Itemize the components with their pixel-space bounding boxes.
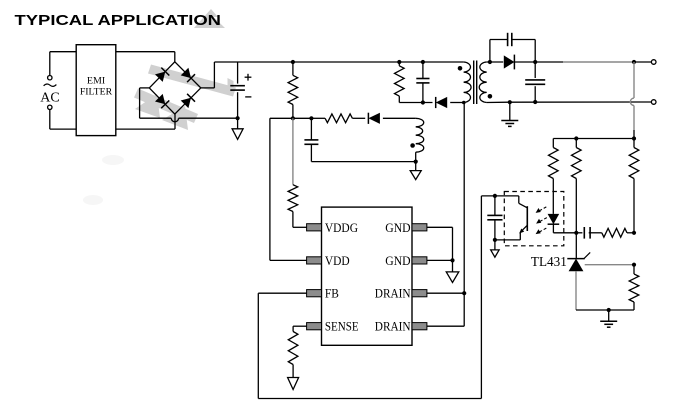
resistor R bias (mid) — [572, 139, 582, 233]
wire positive rail — [214, 61, 463, 63]
wire output top gray — [563, 61, 634, 63]
wire vddg feed (gray) — [292, 118, 294, 184]
resistor R fb upper — [629, 139, 639, 233]
output terminal + — [651, 60, 656, 65]
wire tl431 ref (gray) — [585, 264, 634, 266]
bridge diode D2 (top-right) — [181, 68, 195, 82]
wire emi to bridge top — [116, 52, 175, 63]
pin FB — [307, 290, 322, 297]
capacitor C fb — [487, 196, 502, 240]
output terminal - — [651, 100, 656, 105]
svg-text:GND: GND — [385, 253, 410, 268]
node secondary diode anode — [488, 60, 492, 64]
wire after diode — [514, 61, 535, 63]
wire vddg to pin — [293, 212, 307, 228]
wire aux to diode — [352, 117, 365, 119]
pin VDDG — [307, 224, 322, 231]
pin label GND 1 — [385, 220, 410, 235]
node snubber R top — [397, 60, 401, 64]
ground ic — [446, 260, 459, 282]
capacitor C vdd — [304, 118, 318, 161]
resistor R vddg — [288, 185, 298, 212]
bridge diode D3 (left-bottom) — [155, 94, 169, 108]
resistor R aux — [325, 114, 352, 123]
pin SENSE — [307, 323, 322, 330]
wire emi to bridge bottom — [116, 114, 175, 129]
ground fb — [491, 240, 499, 257]
resistor R led (left) — [549, 139, 559, 214]
wire feedback rail — [553, 138, 634, 140]
wire negative rail — [140, 118, 238, 122]
wire gnd2 — [427, 259, 453, 261]
node comp right — [632, 231, 636, 235]
ground bulk — [232, 118, 243, 139]
diode D clamp — [436, 97, 448, 108]
wire sense pin — [293, 326, 307, 331]
wire output top black — [535, 61, 563, 63]
optocoupler U2 box — [504, 192, 564, 246]
node feedback rail right — [632, 136, 636, 140]
node bulk cap negative — [236, 116, 240, 120]
transformer core — [474, 61, 477, 105]
node primary bottom — [462, 101, 466, 105]
pin VDD — [307, 257, 322, 264]
pin GND1 — [412, 224, 427, 231]
optocoupler LED — [548, 214, 577, 233]
node feedback rail mid — [574, 136, 578, 140]
ground sense — [288, 378, 299, 390]
TL431 U3 — [531, 252, 590, 271]
svg-text:TYPICAL APPLICATION: TYPICAL APPLICATION — [15, 13, 222, 29]
svg-text:FB: FB — [325, 286, 339, 301]
node comp left — [574, 231, 578, 235]
pin label GND 2 — [385, 253, 410, 268]
aux winding phase dot — [410, 143, 415, 148]
wire comp to divider — [627, 232, 634, 234]
wire snubber bottom — [399, 102, 432, 104]
pin label VDD — [325, 253, 350, 268]
wire bridge right corner to positive rail — [201, 62, 215, 88]
resistor R startup — [288, 62, 298, 118]
wire to output terminal + — [634, 61, 651, 63]
node vdd right — [309, 116, 313, 120]
diode D out — [504, 55, 515, 70]
node output cap top — [533, 60, 537, 64]
IC U1 body — [322, 207, 413, 345]
pin label SENSE — [325, 319, 359, 334]
node snubber C bottom — [421, 100, 425, 104]
pin label VDDG — [325, 220, 358, 235]
aux winding L aux — [416, 118, 424, 161]
node aux return — [414, 160, 418, 164]
title text — [15, 13, 222, 29]
optocoupler phototransistor — [495, 196, 527, 240]
wire divider feed (gray with hop) — [630, 62, 634, 139]
svg-text:EMI: EMI — [87, 76, 105, 86]
bridge rectifier outline — [149, 62, 201, 114]
wire drain vertical — [463, 103, 465, 327]
wire fb riser — [480, 196, 482, 399]
svg-text:GND: GND — [385, 220, 410, 235]
node output divider tap — [632, 60, 636, 64]
wire fb bottom rail — [258, 398, 481, 400]
EMI filter block — [76, 45, 116, 136]
wire gnd1 — [427, 227, 453, 260]
primary phase dot — [458, 66, 463, 71]
wire secondary bottom — [487, 101, 652, 104]
ac source V1 — [40, 76, 59, 110]
wire clamp to primary — [450, 102, 463, 104]
pin DRAIN2 — [412, 323, 427, 330]
resistor R snubber — [395, 62, 405, 103]
diode D aux — [368, 113, 380, 124]
svg-text:DRAIN: DRAIN — [375, 286, 411, 301]
svg-text:FILTER: FILTER — [80, 88, 113, 98]
resistor R sense — [288, 332, 298, 378]
svg-text:AC: AC — [40, 90, 59, 105]
node startup resistor top — [291, 60, 295, 64]
bridge diode D4 (bottom-right) — [181, 94, 195, 108]
svg-text:VDDG: VDDG — [325, 220, 358, 235]
node tl431 ref — [632, 263, 636, 267]
pin DRAIN1 — [412, 290, 427, 297]
capacitor C comp — [576, 227, 602, 239]
node snubber C top — [421, 60, 425, 64]
capacitor C diode-snub loop — [490, 33, 535, 62]
wire bridge left corner to negative rail — [140, 88, 150, 118]
node output cap bottom — [533, 100, 537, 104]
wire aux diode to winding — [383, 117, 416, 119]
wire tl431 bottom rail — [576, 309, 634, 311]
wire secondary top — [487, 61, 504, 63]
bridge diode D1 (left-top) — [155, 68, 169, 82]
ground tl431 earth — [600, 310, 617, 327]
ground aux — [410, 162, 421, 180]
wire tl431 anode (gray) — [575, 271, 577, 310]
pin label DRAIN 2 — [375, 319, 411, 334]
wire tl431 cathode — [575, 233, 577, 259]
resistor R fb lower — [629, 265, 639, 310]
node gnd join — [450, 258, 454, 262]
secondary phase dot — [488, 94, 493, 99]
node secondary ground — [508, 100, 512, 104]
transformer primary winding — [464, 62, 471, 103]
node bottom rail ground — [607, 308, 611, 312]
transformer secondary winding — [479, 62, 486, 103]
node drain join — [462, 291, 466, 295]
node vdd left — [291, 116, 295, 120]
resistor R comp — [602, 228, 627, 237]
pin label DRAIN 1 — [375, 286, 411, 301]
wire fb pin — [258, 293, 306, 398]
bulk capacitor C1 (polarized) — [230, 62, 251, 118]
pin GND2 — [412, 257, 427, 264]
wire vdd node — [270, 117, 325, 119]
pin label FB — [325, 286, 339, 301]
node fb cap top — [493, 194, 497, 198]
wire drain2 — [427, 325, 464, 327]
capacitor C out — [525, 62, 545, 102]
wire fb collector — [481, 195, 518, 197]
node fb cap bottom — [493, 238, 497, 242]
optocoupler light arrows — [536, 207, 547, 234]
svg-text:TL431: TL431 — [531, 254, 567, 269]
wire drain1 — [427, 292, 464, 294]
wire aux return — [311, 161, 415, 163]
wire vdd feed — [270, 118, 307, 260]
svg-text:SENSE: SENSE — [325, 319, 359, 334]
watermark — [83, 9, 236, 205]
svg-text:DRAIN: DRAIN — [375, 319, 411, 334]
svg-text:VDD: VDD — [325, 253, 350, 268]
wire ac top — [50, 52, 76, 76]
capacitor C snubber — [416, 62, 429, 103]
ground secondary earth — [501, 102, 518, 126]
wire ac bottom — [50, 110, 76, 130]
